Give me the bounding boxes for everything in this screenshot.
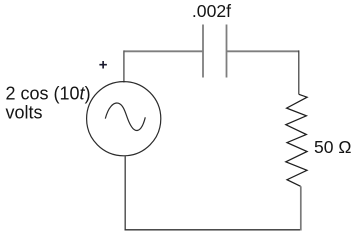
- resistor R1: [286, 94, 307, 186]
- capacitor C1: [203, 25, 227, 78]
- label 2 cos (10t) volts: [6, 83, 91, 122]
- svg-text:volts: volts: [6, 102, 43, 122]
- wire top-left horizontal to capacitor: [124, 50, 203, 52]
- wire capacitor to top-right corner: [227, 50, 300, 52]
- wire bottom horizontal: [125, 229, 302, 231]
- wire left vertical bottom: [124, 156, 126, 231]
- svg-text:2 cos (10t): 2 cos (10t): [6, 83, 91, 103]
- voltage source V1: [87, 82, 161, 156]
- svg-text:.002f: .002f: [192, 1, 231, 21]
- wire right vertical above resistor: [298, 50, 300, 94]
- svg-text:50 Ω: 50 Ω: [314, 137, 351, 157]
- wire left vertical top: [123, 50, 125, 82]
- svg-text:+: +: [99, 56, 108, 73]
- wire right vertical below resistor: [300, 186, 302, 230]
